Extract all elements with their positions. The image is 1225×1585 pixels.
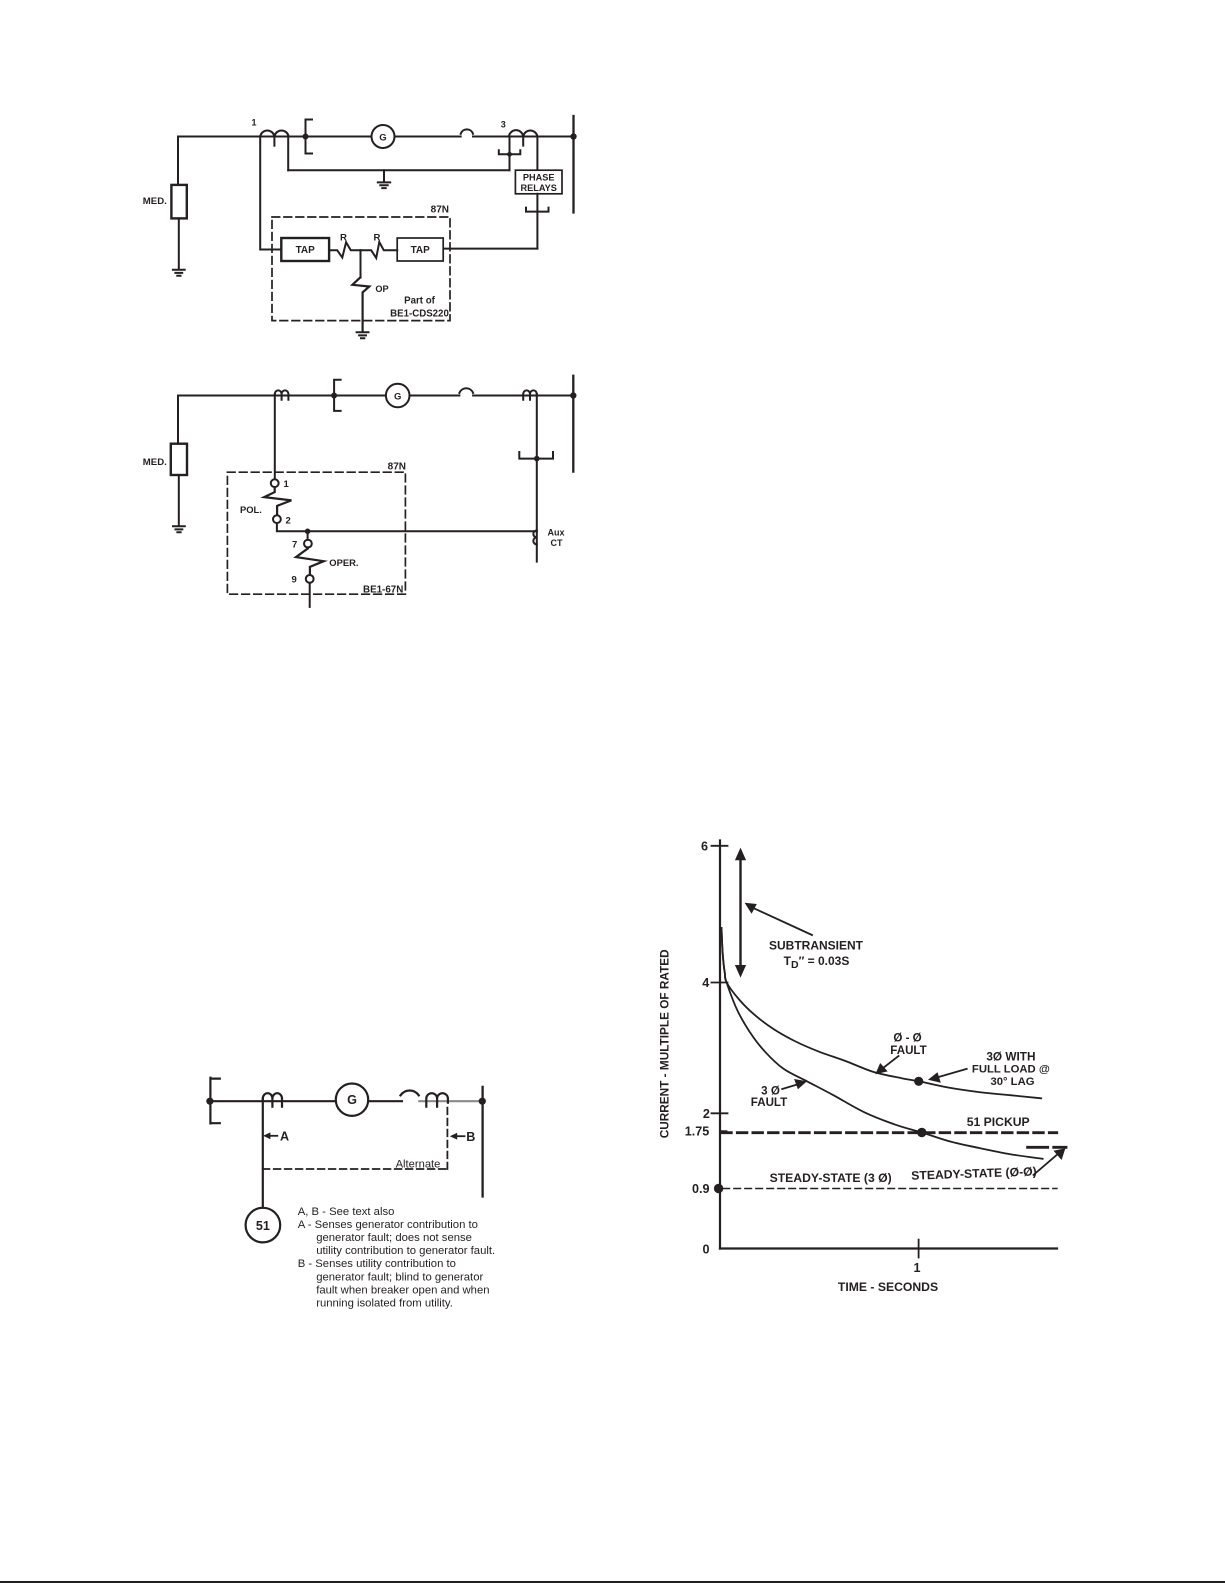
svg-text:9: 9 [292,575,297,586]
svg-text:utility contribution to genera: utility contribution to generator fault. [316,1245,495,1257]
svg-text:3: 3 [501,120,506,130]
svg-text:G: G [394,391,401,402]
bus: bottom-right vertical [481,1087,483,1197]
node: bracket junction (middle bus) [331,393,337,399]
arrow to lower curve [782,1084,799,1089]
node: right bus junction (bottom) [479,1098,486,1105]
svg-text:Aux: Aux [548,528,565,538]
generator G (bottom) [336,1084,368,1116]
box TAP (left) [281,238,329,261]
wire: below terminal 9 [309,583,311,607]
ground (secondary loop, top) [378,182,390,188]
ground (below MED, top) [173,270,185,276]
resistor MED. (grounding resistor, middle) [171,444,187,475]
arrow B (location B pointer) [456,1135,465,1137]
svg-text:0.9: 0.9 [692,1182,710,1196]
wire: ground stub on secondary loop [383,170,385,182]
bus: top-right vertical bus [572,116,574,213]
svg-text:SUBTRANSIENT: SUBTRANSIENT [769,938,864,952]
aux CT (middle) [533,530,537,544]
wire: MED resistor to ground [178,218,180,269]
bus bracket (left end) [210,1078,219,1124]
svg-text:A - Senses generator contribut: A - Senses generator contribution to [298,1219,478,1231]
dashed line: steady-state 3-phase 0.9 level [723,1188,1057,1190]
node: bracket junction on top bus [303,134,309,140]
CT 1 secondary stub [273,137,275,146]
dashed line: steady-state phase-phase level (short) [1028,1146,1066,1149]
axis: X (time) [720,1247,1057,1249]
dot: 51 pickup crossing [917,1128,926,1137]
svg-text:OP: OP [375,284,388,294]
svg-text:FULL LOAD @: FULL LOAD @ [972,1064,1050,1076]
wire: CT secondary down to terminal 1 [274,394,276,479]
svg-text:BE1-67N: BE1-67N [363,584,403,595]
arrow to upper curve [880,1056,899,1071]
tick y=4 [712,982,728,984]
svg-text:TIME - SECONDS: TIME - SECONDS [838,1280,938,1294]
curve: three-phase fault (lower) [722,928,1043,1159]
svg-text:2: 2 [286,515,291,526]
CT 1 (generator neutral-side CT) [260,130,288,136]
terminal 1 (BE1-67N) [271,479,279,487]
CT (line side, middle) [523,390,537,399]
svg-text:BE1-CDS220: BE1-CDS220 [390,308,449,319]
operate coil OP zigzag [352,277,369,332]
node: bus junction (middle) [570,392,576,398]
svg-text:PHASE: PHASE [523,173,555,183]
wire: OP branch down from node [360,250,362,277]
tick y=2 [712,1112,728,1114]
ground (OP coil) [357,332,369,338]
dashed line: 1.75 pickup level [722,1131,1057,1134]
wire: junction down to terminal 7 [307,531,309,539]
wire: CT3 left secondary down [509,137,511,171]
dot: 0.9 intercept [714,1184,723,1193]
svg-text:51: 51 [256,1219,270,1233]
svg-text:OPER.: OPER. [329,557,358,568]
dashed enclosure 87N (BE1-67N) [227,472,405,594]
terminal 7 (BE1-67N) [304,540,312,548]
tick y=1.75 [720,1130,727,1132]
axis: Y (current) [719,841,721,1249]
svg-text:FAULT: FAULT [890,1044,927,1057]
svg-text:TD″ = 0.03S: TD″ = 0.03S [784,954,850,971]
svg-text:1.75: 1.75 [685,1125,710,1139]
resistor R zigzag (left) [329,242,360,257]
svg-text:TAP: TAP [411,245,431,256]
svg-text:3Ø WITH: 3Ø WITH [986,1049,1035,1063]
wire: right TAP to phase-relay string [443,248,537,250]
wire: left drop to MED resistor (middle) [177,396,179,444]
svg-text:MED.: MED. [143,457,167,468]
node: bracket junction (middle right) [534,456,540,462]
generator G (top) [372,125,395,148]
svg-text:B - Senses utility contributio: B - Senses utility contribution to [298,1258,456,1270]
svg-text:1: 1 [252,118,257,128]
box PHASE RELAYS [515,170,562,194]
shorting bracket under CT3 [499,150,521,154]
pointer arrow to subtransient span [752,907,812,935]
resistor R zigzag (right) [361,242,398,258]
box TAP (right) [397,238,443,261]
double arrow: subtransient span 6 to 4 [739,858,741,967]
arrow to steady-state phase-phase level [1034,1154,1058,1175]
wire: left drop to MED resistor [177,137,179,186]
CT A (generator side) [263,1093,282,1106]
svg-text:CURRENT - MULTIPLE OF RATED: CURRENT - MULTIPLE OF RATED [658,949,672,1138]
svg-text:STEADY-STATE (Ø-Ø): STEADY-STATE (Ø-Ø) [911,1164,1037,1182]
CT (generator neutral CT, middle) [275,390,289,399]
curve: phase-phase fault (upper) [722,928,1042,1098]
svg-text:G: G [379,132,386,143]
generator G (middle) [386,384,410,408]
svg-text:1: 1 [284,479,290,490]
svg-text:Ø - Ø: Ø - Ø [893,1032,921,1045]
relay 51 circle [246,1208,281,1243]
svg-text:30° LAG: 30° LAG [990,1076,1034,1088]
svg-text:generator fault; blind to gene: generator fault; blind to generator [316,1271,483,1283]
svg-text:Part of: Part of [404,296,435,307]
footer rule [0,1581,1225,1583]
wire: bottom main bus (black part) [210,1100,402,1102]
svg-text:A: A [280,1130,289,1144]
svg-text:4: 4 [702,976,709,990]
svg-text:G: G [347,1093,357,1107]
operate coil OPER. zigzag [296,548,324,576]
svg-text:0: 0 [702,1243,709,1257]
svg-text:87N: 87N [431,205,449,216]
disconnect bracket (left of G, top) [306,120,313,154]
wire: middle main bus horizontal [178,395,573,397]
wire: CT1 right secondary down to neutral loop [287,137,289,171]
svg-text:generator fault; does not sens: generator fault; does not sense [316,1232,472,1244]
svg-text:7: 7 [292,539,297,550]
svg-text:fault when breaker open and wh: fault when breaker open and when [316,1284,489,1296]
svg-text:51 PICKUP: 51 PICKUP [967,1115,1030,1129]
wire: CT3 right secondary to PHASE RELAYS [536,137,538,171]
CT B (utility side, alternate) [426,1093,448,1106]
terminal 9 (BE1-67N) [306,575,314,583]
dot: full load point on upper curve [914,1077,923,1086]
wire: bottom main bus (gray alternate part) [419,1100,482,1102]
svg-text:B: B [466,1130,475,1144]
svg-text:running isolated from utility.: running isolated from utility. [316,1298,453,1310]
disconnect bracket (left of G, middle) [334,380,341,411]
svg-text:RELAYS: RELAYS [520,183,556,193]
node: CT3 bracket junction [507,152,512,157]
svg-text:POL.: POL. [240,504,262,515]
wire: PHASE RELAYS down [536,194,538,249]
shorting bracket (middle right) [519,452,553,459]
CT 3 (line-side CT) [509,130,538,136]
polarizing coil POL. zigzag [264,487,291,515]
svg-text:87N: 87N [388,461,406,472]
svg-text:A, B - See text also: A, B - See text also [298,1206,395,1218]
svg-text:STEADY-STATE (3 Ø): STEADY-STATE (3 Ø) [770,1171,892,1185]
node: bus junction (top) [570,133,576,139]
CT 3 secondary stub [522,137,524,146]
svg-text:1: 1 [913,1261,920,1275]
resistor MED. (grounding resistor, top) [171,185,186,219]
tick x=1 [918,1240,920,1258]
breaker (top diagram) [461,129,473,133]
arrow A (location A pointer) [269,1135,277,1137]
svg-text:CT: CT [551,538,563,548]
shorting bracket below PHASE RELAYS [526,208,549,212]
wire: terminal 2 down and right to aux CT [277,523,537,531]
wire: top main bus horizontal [178,136,574,138]
breaker (bottom diagram) [401,1091,419,1096]
wire: CT secondary neutral loop [288,169,509,171]
svg-text:FAULT: FAULT [751,1096,788,1109]
node: junction above terminal 7 [305,529,311,535]
arrow to full-load dot [936,1069,967,1078]
tick y=6 [712,845,728,847]
dashed enclosure 87N (BE1-CDS220) [272,217,450,321]
svg-text:TAP: TAP [296,245,316,256]
wire: line CT secondary down [536,394,538,562]
wire: CT1 left secondary down to TAP [260,137,281,250]
node: left bus junction [206,1098,213,1105]
bus: middle-right vertical bus [572,376,574,472]
svg-text:6: 6 [701,840,708,854]
wire: alternate dashed path [263,1108,448,1169]
terminal 2 (BE1-67N) [273,515,281,523]
svg-text:MED.: MED. [143,196,167,207]
breaker (middle diagram) [459,388,473,393]
svg-text:2: 2 [703,1107,710,1121]
svg-text:Alternate: Alternate [396,1158,441,1170]
wire: CT A secondary down to 51 [262,1099,264,1208]
ground (below MED, middle) [173,526,185,532]
wire: MED resistor to ground (middle) [178,475,180,526]
